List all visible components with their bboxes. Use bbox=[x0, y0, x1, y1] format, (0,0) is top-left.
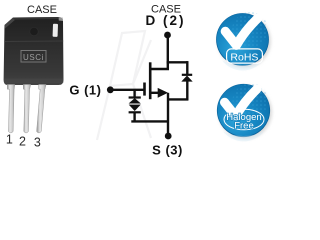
pin 1 leg bbox=[7, 85, 15, 133]
USCi logo box bbox=[21, 51, 46, 63]
node S terminal dot bbox=[165, 133, 172, 140]
wire gate horizontal bbox=[110, 89, 146, 91]
top-left chamfer highlight bbox=[5, 18, 15, 29]
wire body-diode branch vertical upper bbox=[186, 61, 188, 74]
pin 3 leg bbox=[37, 85, 47, 133]
check bbox=[225, 89, 257, 116]
svg-text:2: 2 bbox=[19, 135, 26, 149]
package top edge highlight bbox=[13, 17, 58, 20]
package bottom reflection band bbox=[4, 79, 63, 84]
wire body-diode bottom horizontal bbox=[168, 98, 189, 100]
wire source rail bbox=[131, 120, 169, 122]
ESD diode lower cathode bar bbox=[129, 111, 141, 113]
svg-text:G (1): G (1) bbox=[69, 83, 101, 98]
package seam line bbox=[4, 40, 63, 43]
MOSFET source arrowhead bbox=[158, 88, 168, 98]
wire ESD stub from gate line bbox=[133, 90, 135, 97]
ESD diode lower triangle (pointing down) bbox=[129, 105, 140, 111]
ESD diode upper cathode bar bbox=[129, 96, 141, 98]
svg-text:CASE: CASE bbox=[27, 4, 57, 16]
wire body-diode branch vertical lower bbox=[186, 81, 188, 101]
wire source vertical bbox=[167, 93, 169, 133]
MOSFET gate plate bbox=[143, 83, 146, 96]
transistor package TO-247 body bbox=[4, 17, 64, 85]
svg-text:3: 3 bbox=[34, 136, 41, 150]
RoHS badge bbox=[216, 12, 271, 71]
svg-text:1: 1 bbox=[6, 132, 13, 146]
svg-text:D (2): D (2) bbox=[146, 13, 186, 28]
Halogen Free badge bbox=[217, 83, 272, 141]
wire source horizontal with arrow line bbox=[151, 92, 160, 94]
MOSFET channel bar bbox=[149, 62, 152, 99]
wire ESD stub to source rail bbox=[133, 113, 135, 123]
wire top branch to body diode bbox=[167, 61, 188, 63]
body diode anode triangle bbox=[182, 76, 192, 81]
wire drain vertical bbox=[167, 35, 169, 70]
body diode cathode bar bbox=[182, 74, 192, 76]
ESD diode upper triangle (pointing up) bbox=[129, 99, 140, 104]
pin 2 leg bbox=[23, 85, 31, 133]
svg-text:Free: Free bbox=[234, 120, 254, 131]
watermark bbox=[97, 31, 151, 140]
node D terminal dot bbox=[164, 32, 171, 39]
node G terminal dot bbox=[107, 86, 114, 93]
svg-text:S (3): S (3) bbox=[152, 142, 183, 157]
svg-text:USCi: USCi bbox=[23, 53, 44, 62]
top-right corner notch bbox=[59, 17, 64, 21]
svg-text:RoHS: RoHS bbox=[230, 52, 258, 64]
check bbox=[225, 18, 257, 45]
side slot bbox=[53, 24, 58, 37]
wire drain horizontal to channel bbox=[150, 68, 169, 70]
mounting hole bbox=[30, 27, 38, 35]
